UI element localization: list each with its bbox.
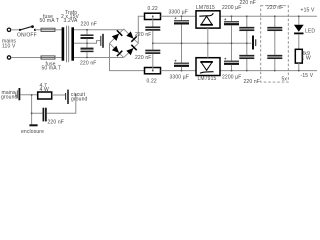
wire	[11, 57, 41, 59]
capacitor C2 220nF across bottom secondary	[81, 43, 94, 57]
wire ground rail	[153, 42, 252, 44]
transformer TR1 primary winding	[62, 27, 65, 60]
svg-text:2200 µF: 2200 µF	[222, 75, 242, 81]
wire	[47, 95, 76, 113]
ground mains symbol	[16, 88, 20, 100]
dashed box 5x decoupling	[261, 6, 289, 82]
wire junction down left	[32, 95, 43, 113]
diode D2 top-right	[126, 31, 136, 41]
svg-text:220 nF: 220 nF	[267, 5, 283, 11]
resistor R4 4.7 4W	[38, 92, 52, 99]
ground centre tap	[101, 34, 103, 48]
LED D5	[294, 16, 304, 49]
wire	[55, 29, 62, 31]
svg-text:220 nF: 220 nF	[80, 60, 96, 66]
wire regulator U1 ground pin	[207, 28, 209, 43]
capacitor C11 220nF in dashed box top	[267, 16, 282, 55]
svg-text:LED: LED	[305, 29, 315, 35]
svg-text:220 nF: 220 nF	[244, 79, 260, 85]
svg-text:4 W: 4 W	[40, 87, 49, 93]
capacitor C7 2200uF top	[224, 16, 239, 43]
svg-text:220 nF: 220 nF	[81, 21, 97, 27]
diode D4 bottom-right	[126, 45, 136, 55]
wire	[55, 57, 62, 59]
svg-text:0.22: 0.22	[147, 79, 157, 85]
capacitor C4 220nF bottom rail	[145, 43, 160, 70]
wire secondary centre tap	[74, 41, 100, 44]
wire negative rail	[161, 70, 318, 72]
switch S1 ON/OFF	[19, 25, 36, 31]
capacitor C12 220nF in dashed box bottom	[267, 56, 282, 71]
regulator U1 LM7815	[196, 11, 220, 28]
capacitor C13 220nF ground lift	[43, 108, 46, 122]
svg-text:220 nF: 220 nF	[135, 55, 151, 61]
svg-text:50 mA T: 50 mA T	[42, 66, 62, 72]
svg-text:220 nF: 220 nF	[240, 0, 256, 6]
wire	[11, 29, 20, 31]
transformer core	[66, 26, 68, 62]
ground output rail	[253, 36, 256, 50]
svg-text:ground: ground	[71, 96, 88, 102]
fuse F2	[41, 56, 55, 59]
wire secondary top lead	[74, 29, 124, 31]
svg-text:5x: 5x	[282, 76, 288, 82]
resistor R2 0.22 bottom	[145, 68, 161, 74]
capacitor C1 220nF across top secondary	[81, 30, 94, 44]
svg-text:3300 µF: 3300 µF	[169, 10, 189, 16]
ground circuit symbol	[66, 90, 68, 104]
terminal mains neutral	[7, 56, 10, 59]
wire bridge minus output down	[110, 43, 145, 70]
svg-text:3.2VA: 3.2VA	[64, 18, 79, 24]
capacitor C3 220nF top rail	[145, 16, 160, 43]
svg-text:3300 µF: 3300 µF	[170, 74, 190, 80]
diode D3 bottom-left	[112, 46, 122, 56]
svg-text:LM7815: LM7815	[196, 5, 215, 11]
svg-text:ON/OFF: ON/OFF	[17, 32, 37, 38]
svg-text:220 nF: 220 nF	[48, 120, 64, 126]
wire	[52, 94, 65, 96]
wire bridge plus output up	[138, 16, 144, 43]
capacitor C8 220nF top	[239, 16, 254, 43]
svg-text:-15 V: -15 V	[301, 73, 314, 79]
fuse F1	[41, 28, 55, 31]
diode D1 top-left	[112, 30, 123, 41]
svg-text:110 V: 110 V	[2, 43, 16, 49]
enclosure bar	[29, 124, 37, 126]
wire positive rail	[161, 15, 318, 17]
bridge rectifier B1 outline	[110, 29, 139, 58]
resistor R1 0.22 top	[145, 13, 161, 19]
wire to enclosure	[31, 113, 33, 124]
regulator U2 LM7915	[196, 58, 220, 76]
resistor R3 3k9 1W	[295, 49, 302, 63]
capacitor C10 220nF bottom	[239, 43, 254, 70]
capacitor C6 3300uF bottom	[174, 43, 189, 70]
wire secondary bottom lead	[74, 57, 124, 59]
svg-text:enclosure: enclosure	[21, 129, 44, 135]
wire	[298, 63, 300, 71]
wire	[20, 94, 37, 96]
svg-text:0.22: 0.22	[148, 6, 158, 12]
terminal mains live	[7, 28, 10, 31]
svg-text:220 nF: 220 nF	[135, 32, 151, 38]
svg-text:+15 V: +15 V	[301, 7, 315, 13]
wire regulator U2 ground pin	[207, 43, 209, 57]
svg-text:ground: ground	[1, 94, 18, 100]
svg-text:1 W: 1 W	[302, 55, 311, 61]
capacitor C9 2200uF bottom	[224, 43, 239, 70]
svg-text:50 mA T: 50 mA T	[40, 18, 60, 24]
capacitor C5 3300uF top	[174, 16, 189, 43]
wire	[35, 29, 41, 31]
svg-text:LM7915: LM7915	[198, 76, 217, 82]
transformer TR1 secondary winding	[71, 27, 74, 60]
